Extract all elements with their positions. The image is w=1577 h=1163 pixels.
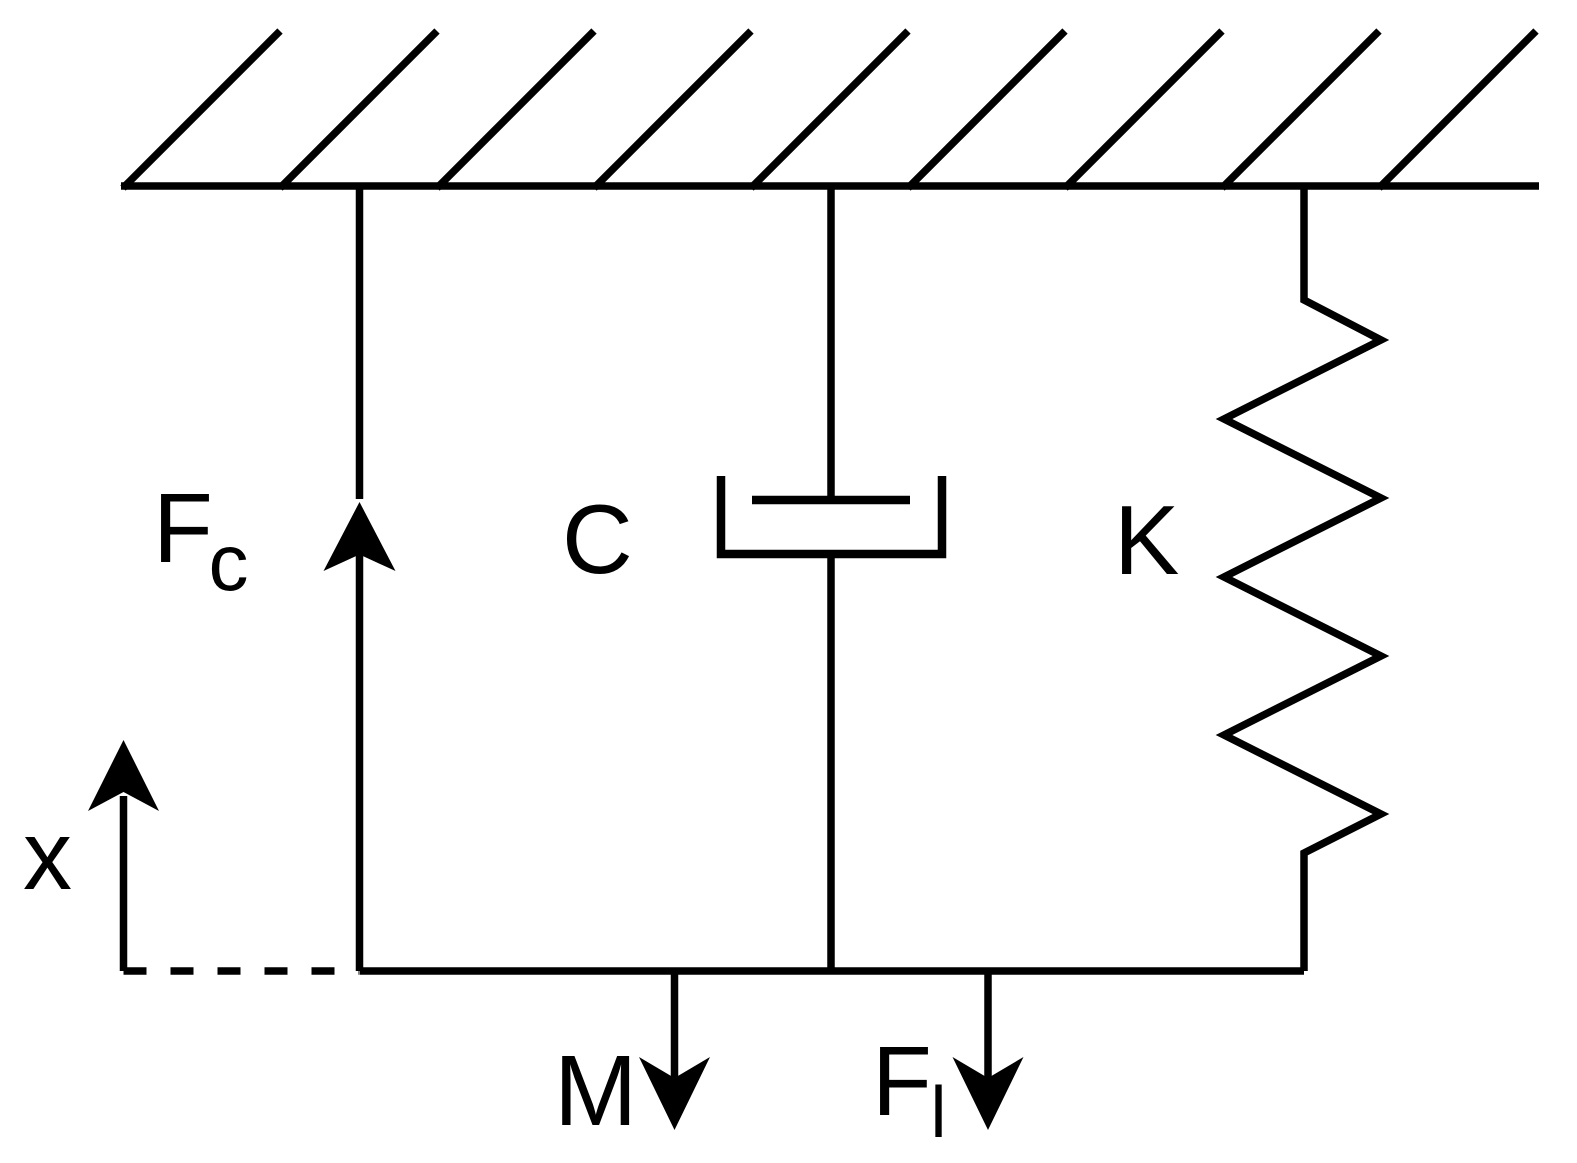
rod left upper (Fc member above arrow)	[356, 186, 364, 499]
bottom bar (mass rod)	[360, 967, 1305, 975]
force arrow Fl arrowhead	[953, 1057, 1024, 1130]
force arrow M arrowhead	[639, 1057, 710, 1130]
rod left lower (Fc member below arrow)	[356, 550, 364, 971]
displacement axis x arrowhead	[88, 740, 159, 811]
fixed support ceiling line	[121, 182, 1539, 190]
svg-text:l: l	[931, 1073, 947, 1153]
svg-text:C: C	[562, 484, 633, 594]
svg-text:M: M	[554, 1035, 637, 1147]
force arrow Fl shaft	[984, 971, 992, 1080]
spring K zigzag with leads	[1224, 186, 1381, 971]
rod middle lower	[827, 554, 835, 971]
svg-text:K: K	[1114, 485, 1179, 595]
svg-text:c: c	[209, 518, 249, 607]
rod middle upper (damper shaft)	[827, 186, 835, 502]
svg-text:F: F	[153, 473, 213, 583]
svg-text:F: F	[872, 1026, 932, 1136]
displacement axis x arrow shaft	[120, 796, 128, 971]
svg-text:x: x	[23, 800, 72, 910]
dashed reference line	[124, 967, 360, 975]
damper C piston plate	[752, 496, 910, 505]
force arrow M shaft	[671, 971, 679, 1080]
force arrow Fc arrowhead	[324, 502, 396, 571]
damper C cylinder cup	[721, 476, 942, 554]
ceiling hatch marks	[123, 31, 1536, 188]
